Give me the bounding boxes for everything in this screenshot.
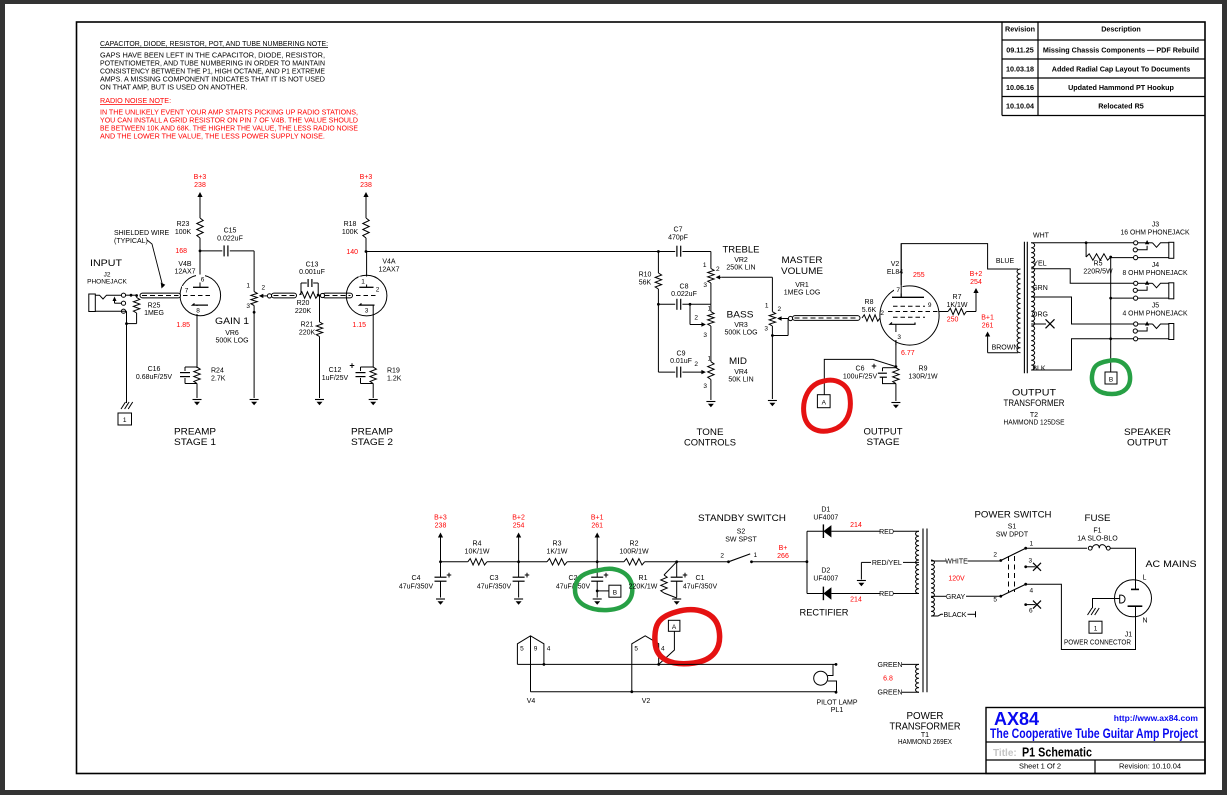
- resistor R24: [194, 367, 200, 383]
- svg-text:RECTIFIER: RECTIFIER: [800, 608, 849, 619]
- svg-text:V4B: V4B: [178, 261, 192, 268]
- svg-text:B+1: B+1: [591, 515, 604, 522]
- svg-text:1MEG LOG: 1MEG LOG: [784, 290, 821, 297]
- svg-text:140: 140: [346, 249, 358, 256]
- svg-text:2: 2: [993, 552, 997, 559]
- svg-text:A: A: [672, 624, 677, 631]
- svg-text:214: 214: [850, 597, 862, 604]
- wire V2 cathode: [895, 340, 897, 367]
- ground C3: [514, 598, 523, 600]
- svg-text:R24: R24: [211, 368, 224, 375]
- svg-text:1K/1W: 1K/1W: [546, 549, 567, 556]
- mid pot VR4: [694, 356, 714, 401]
- svg-text:238: 238: [360, 182, 372, 189]
- radio noise note text: [100, 96, 358, 141]
- svg-text:1: 1: [1030, 541, 1034, 548]
- wire plate V4B to node: [199, 251, 201, 276]
- resistor R20: [300, 292, 319, 298]
- svg-text:D2: D2: [821, 568, 830, 575]
- resistor R19: [370, 367, 376, 383]
- svg-text:The Cooperative Tube Guitar Am: The Cooperative Tube Guitar Amp Project: [990, 726, 1198, 741]
- svg-text:261: 261: [982, 323, 994, 330]
- svg-text:VR6: VR6: [225, 330, 239, 337]
- svg-text:120V: 120V: [948, 576, 965, 583]
- svg-text:3: 3: [703, 282, 707, 289]
- svg-text:250: 250: [947, 317, 959, 324]
- svg-text:B: B: [613, 590, 617, 597]
- heater V2: [630, 636, 665, 693]
- svg-text:PHONEJACK: PHONEJACK: [87, 279, 127, 286]
- wire stage2 plate to tone controls: [366, 251, 658, 253]
- capacitor C1: [676, 562, 678, 577]
- svg-text:R4: R4: [473, 541, 482, 548]
- box A output: [817, 395, 830, 408]
- shielded wire to V4A grid: [323, 293, 353, 298]
- title block: [986, 708, 1205, 774]
- svg-text:100K: 100K: [175, 229, 192, 236]
- input jack J2: [87, 258, 127, 313]
- svg-text:1: 1: [361, 279, 365, 286]
- svg-text:R5: R5: [1094, 261, 1103, 268]
- svg-text:A: A: [822, 400, 827, 407]
- ground center tap: [857, 580, 866, 582]
- svg-text:1: 1: [123, 417, 127, 424]
- svg-text:C16: C16: [148, 366, 161, 373]
- svg-text:8 OHM PHONEJACK: 8 OHM PHONEJACK: [1123, 270, 1188, 277]
- svg-text:R19: R19: [387, 368, 400, 375]
- wire jack sleeve to chassis: [124, 310, 127, 312]
- svg-text:1MEG: 1MEG: [144, 310, 164, 317]
- green annotation circle speaker: [1092, 360, 1130, 394]
- svg-text:7: 7: [185, 288, 189, 295]
- svg-text:238: 238: [194, 182, 206, 189]
- svg-text:10.06.16: 10.06.16: [1006, 83, 1034, 92]
- svg-text:3: 3: [764, 326, 768, 333]
- svg-text:SPEAKER: SPEAKER: [1124, 427, 1171, 438]
- svg-text:3: 3: [1029, 558, 1033, 565]
- wire fuse to plug: [1110, 548, 1135, 589]
- heater bus bottom: [531, 691, 837, 693]
- svg-text:L: L: [1143, 575, 1147, 582]
- svg-text:Sheet 1 Of 2: Sheet 1 Of 2: [1019, 762, 1061, 771]
- svg-text:2: 2: [880, 310, 884, 317]
- svg-text:+: +: [349, 361, 354, 371]
- svg-text:YEL: YEL: [1033, 261, 1046, 268]
- svg-text:BASS: BASS: [727, 310, 754, 321]
- ground stage2 cathode: [369, 399, 378, 401]
- svg-text:UF4007: UF4007: [813, 576, 838, 583]
- ground R21: [315, 399, 324, 401]
- resistor R4: [468, 559, 487, 565]
- speaker common line: [1110, 257, 1112, 372]
- svg-text:500K LOG: 500K LOG: [215, 338, 248, 345]
- shielded wire input: [140, 293, 181, 298]
- resistor R5: [1085, 243, 1087, 257]
- svg-text:10.03.18: 10.03.18: [1006, 65, 1034, 74]
- resistor R2: [624, 559, 645, 565]
- output transformer T2: [1017, 242, 1035, 374]
- svg-text:ORG: ORG: [1032, 312, 1048, 319]
- svg-text:100R/1W: 100R/1W: [619, 549, 649, 556]
- tube V4B: [180, 275, 221, 369]
- svg-text:3: 3: [246, 303, 250, 310]
- svg-text:214: 214: [850, 522, 862, 529]
- svg-text:D1: D1: [821, 507, 830, 514]
- svg-text:R8: R8: [865, 299, 874, 306]
- svg-text:3: 3: [897, 334, 901, 341]
- svg-text:4: 4: [661, 646, 665, 653]
- svg-text:2: 2: [694, 361, 698, 368]
- svg-text:C8: C8: [680, 284, 689, 291]
- ground C1: [672, 598, 681, 600]
- svg-text:B+3: B+3: [434, 515, 447, 522]
- svg-text:R18: R18: [344, 221, 357, 228]
- svg-text:WHITE: WHITE: [945, 559, 968, 566]
- revision table: [1002, 22, 1205, 116]
- svg-text:4: 4: [1030, 588, 1034, 595]
- svg-text:SHIELDED WIRE: SHIELDED WIRE: [114, 230, 170, 237]
- svg-text:GRN: GRN: [1032, 285, 1048, 292]
- svg-text:266: 266: [777, 553, 789, 560]
- pilot lamp PL1: [814, 671, 828, 685]
- svg-text:POWER: POWER: [907, 711, 944, 722]
- svg-text:R21: R21: [301, 322, 314, 329]
- resistor R23: [197, 218, 203, 238]
- wire box A to heater: [659, 631, 675, 664]
- svg-text:6: 6: [1029, 608, 1033, 615]
- svg-text:S1: S1: [1008, 524, 1017, 531]
- svg-text:R9: R9: [919, 366, 928, 373]
- svg-text:J1: J1: [1125, 632, 1133, 639]
- svg-text:POWER SWITCH: POWER SWITCH: [975, 510, 1052, 521]
- numbering note text: [100, 39, 328, 92]
- svg-text:J3: J3: [1152, 221, 1160, 228]
- svg-text:50K LIN: 50K LIN: [728, 377, 753, 384]
- svg-text:TREBLE: TREBLE: [723, 245, 760, 256]
- svg-text:BLUE: BLUE: [996, 258, 1015, 265]
- resistor R25: [125, 294, 136, 296]
- svg-text:RED: RED: [879, 529, 894, 536]
- svg-text:5: 5: [634, 646, 638, 653]
- svg-text:N: N: [1143, 618, 1148, 625]
- svg-text:HAMMOND 269EX: HAMMOND 269EX: [898, 739, 952, 746]
- svg-text:4: 4: [547, 646, 551, 653]
- svg-text:PREAMP: PREAMP: [174, 427, 216, 438]
- chassis ground hatch: [121, 402, 126, 409]
- svg-text:6: 6: [201, 277, 205, 284]
- svg-text:1.15: 1.15: [352, 322, 366, 329]
- svg-text:TRANSFORMER: TRANSFORMER: [890, 722, 961, 733]
- wire J3 sleeve: [1111, 257, 1134, 259]
- treble pot VR2: [703, 252, 721, 305]
- svg-text:10K/1W: 10K/1W: [465, 549, 490, 556]
- svg-text:1: 1: [246, 283, 250, 290]
- svg-text:250K LIN: 250K LIN: [726, 265, 755, 272]
- svg-text:V2: V2: [642, 698, 651, 705]
- svg-text:OUTPUT: OUTPUT: [1127, 438, 1168, 449]
- svg-text:168: 168: [175, 248, 187, 255]
- svg-text:AND THE LOWER THE VALUE, THE L: AND THE LOWER THE VALUE, THE LESS POWER …: [100, 132, 325, 141]
- svg-text:+: +: [446, 570, 451, 580]
- svg-text:OUTPUT: OUTPUT: [1012, 388, 1056, 399]
- svg-text:1: 1: [754, 552, 758, 559]
- svg-text:1: 1: [708, 306, 712, 313]
- svg-text:238: 238: [435, 523, 447, 530]
- wire S1 pin1 to fuse: [1026, 547, 1087, 549]
- ground output cathode: [891, 402, 900, 404]
- svg-text:+: +: [524, 570, 529, 580]
- svg-text:R7: R7: [953, 294, 962, 301]
- svg-text:STAGE: STAGE: [867, 437, 900, 448]
- svg-text:C13: C13: [306, 262, 319, 269]
- svg-text:(TYPICAL): (TYPICAL): [114, 238, 148, 245]
- svg-text:1: 1: [765, 303, 769, 310]
- capacitor C12: [361, 366, 374, 368]
- svg-text:0.022uF: 0.022uF: [217, 236, 243, 243]
- svg-text:4 OHM PHONEJACK: 4 OHM PHONEJACK: [1123, 311, 1188, 318]
- svg-text:C4: C4: [412, 575, 421, 582]
- wire MV to treble wiper: [721, 276, 772, 278]
- svg-text:1: 1: [1094, 626, 1098, 633]
- svg-text:C12: C12: [329, 367, 342, 374]
- svg-text:2: 2: [720, 553, 724, 560]
- svg-text:RADIO NOISE NOTE:: RADIO NOISE NOTE:: [100, 96, 171, 105]
- capacitor C3: [517, 560, 520, 563]
- resistor R21: [319, 295, 321, 322]
- svg-text:R3: R3: [553, 541, 562, 548]
- svg-text:V2: V2: [891, 261, 900, 268]
- svg-text:C15: C15: [224, 228, 237, 235]
- svg-text:B+1: B+1: [981, 315, 994, 322]
- wire plug N loop to switch pin4: [1026, 584, 1136, 649]
- svg-text:R1: R1: [639, 575, 648, 582]
- svg-text:2.7K: 2.7K: [211, 376, 226, 383]
- svg-text:PL1: PL1: [831, 707, 844, 714]
- svg-text:R10: R10: [639, 272, 652, 279]
- phonejack J5: [1133, 321, 1174, 341]
- power transformer T1: [916, 529, 935, 693]
- wire plug ground: [1093, 599, 1120, 609]
- svg-text:Title:: Title:: [993, 748, 1017, 759]
- svg-text:1: 1: [703, 262, 707, 269]
- screen grid wire + resistor R7: [939, 311, 948, 313]
- svg-text:BLK: BLK: [1032, 366, 1046, 373]
- svg-text:R25: R25: [148, 303, 161, 310]
- ground C2: [593, 598, 602, 600]
- svg-text:Updated Hammond PT Hookup: Updated Hammond PT Hookup: [1068, 83, 1174, 92]
- wire BLACK primary: [931, 614, 943, 616]
- svg-text:R2: R2: [630, 541, 639, 548]
- svg-text:09.11.25: 09.11.25: [1006, 46, 1034, 55]
- svg-text:2: 2: [376, 287, 380, 294]
- svg-text:BROWN: BROWN: [992, 345, 1019, 352]
- resistor R3: [547, 559, 567, 565]
- svg-text:0.022uF: 0.022uF: [671, 291, 697, 298]
- svg-text:WHT: WHT: [1033, 233, 1050, 240]
- svg-text:5: 5: [993, 597, 997, 604]
- tube V4A: [346, 252, 387, 368]
- svg-text:9: 9: [534, 646, 538, 653]
- svg-text:C3: C3: [490, 575, 499, 582]
- svg-text:Missing Chassis Components — P: Missing Chassis Components — PDF Rebuild: [1043, 46, 1199, 55]
- svg-text:HAMMOND 125DSE: HAMMOND 125DSE: [1004, 420, 1065, 427]
- gain pot VR6: [246, 283, 269, 399]
- svg-text:220K/1W: 220K/1W: [629, 584, 658, 591]
- svg-text:B+3: B+3: [360, 174, 373, 181]
- wire J5 sleeve: [1111, 338, 1134, 340]
- svg-text:VR3: VR3: [734, 322, 748, 329]
- svg-text:CAPACITOR, DIODE, RESISTOR, PO: CAPACITOR, DIODE, RESISTOR, POT, AND TUB…: [100, 39, 328, 48]
- svg-text:PILOT LAMP: PILOT LAMP: [816, 700, 857, 707]
- svg-text:0.01uF: 0.01uF: [670, 358, 692, 365]
- svg-text:INPUT: INPUT: [90, 258, 122, 269]
- svg-text:0.001uF: 0.001uF: [299, 269, 325, 276]
- heater V4: [517, 636, 550, 692]
- capacitor C4: [439, 560, 442, 563]
- svg-text:1: 1: [708, 356, 712, 363]
- svg-text:AC MAINS: AC MAINS: [1146, 559, 1197, 570]
- svg-text:130R/1W: 130R/1W: [908, 374, 938, 381]
- svg-text:B+3: B+3: [194, 174, 207, 181]
- svg-text:B+: B+: [779, 545, 788, 552]
- wire C15 to gain pot: [253, 251, 255, 283]
- wire GRAY primary: [931, 595, 946, 597]
- svg-text:SW SPST: SW SPST: [725, 537, 757, 544]
- node tone input: [657, 250, 660, 253]
- svg-text:C1: C1: [696, 575, 705, 582]
- red annotation circle output: [804, 380, 851, 431]
- heater bus top: [517, 663, 836, 665]
- svg-text:47uF/350V: 47uF/350V: [683, 584, 718, 591]
- svg-text:PREAMP: PREAMP: [351, 427, 393, 438]
- svg-text:STAGE 1: STAGE 1: [174, 437, 216, 448]
- resistor R10: [657, 252, 659, 274]
- svg-text:500K LOG: 500K LOG: [724, 330, 757, 337]
- box 1 input: [118, 413, 132, 425]
- svg-text:VR2: VR2: [734, 257, 748, 264]
- svg-text:Added Radial Cap Layout To Doc: Added Radial Cap Layout To Documents: [1052, 65, 1190, 74]
- svg-text:Relocated R5: Relocated R5: [1098, 102, 1144, 111]
- svg-text:47uF/350V: 47uF/350V: [477, 584, 512, 591]
- svg-text:10.10.04: 10.10.04: [1006, 102, 1034, 111]
- svg-text:BLACK: BLACK: [944, 612, 967, 619]
- svg-text:100K: 100K: [342, 229, 359, 236]
- capacitor C16: [185, 366, 197, 368]
- svg-text:S2: S2: [737, 529, 746, 536]
- bass pot VR3: [694, 304, 714, 361]
- ground gain pot: [250, 399, 259, 401]
- svg-text:100uF/25V: 100uF/25V: [843, 374, 878, 381]
- svg-text:255: 255: [913, 272, 925, 279]
- svg-text:2: 2: [694, 315, 698, 322]
- box B psu: [596, 590, 599, 593]
- svg-text:CONTROLS: CONTROLS: [684, 438, 736, 449]
- svg-text:3: 3: [703, 383, 707, 390]
- svg-text:R23: R23: [177, 221, 190, 228]
- svg-text:9: 9: [928, 302, 932, 309]
- capacitor C6 / resistor R9 network: [895, 365, 898, 368]
- svg-text:254: 254: [970, 279, 982, 286]
- svg-text:C9: C9: [677, 351, 686, 358]
- svg-text:8: 8: [196, 308, 200, 315]
- svg-text:V4: V4: [527, 698, 536, 705]
- svg-text:+: +: [603, 570, 608, 580]
- svg-text:2: 2: [716, 266, 720, 273]
- svg-text:220K: 220K: [295, 308, 312, 315]
- svg-text:T2: T2: [1030, 412, 1038, 419]
- svg-text:Revision: 10.10.04: Revision: 10.10.04: [1119, 762, 1181, 771]
- svg-text:5.6K: 5.6K: [862, 307, 877, 314]
- svg-text:OUTPUT: OUTPUT: [864, 427, 903, 438]
- resistor R8: [862, 315, 880, 321]
- svg-text:STANDBY SWITCH: STANDBY SWITCH: [698, 513, 786, 524]
- svg-text:MASTER: MASTER: [782, 255, 823, 266]
- phonejack J3: [1133, 240, 1174, 260]
- ground master volume: [768, 400, 777, 402]
- svg-text:56K: 56K: [639, 280, 652, 287]
- svg-text:470pF: 470pF: [668, 235, 688, 242]
- svg-text:TRANSFORMER: TRANSFORMER: [1004, 398, 1065, 409]
- power rail wire: [441, 561, 468, 563]
- svg-text:261: 261: [591, 523, 603, 530]
- ground C4: [436, 598, 445, 600]
- svg-text:2: 2: [778, 306, 782, 313]
- svg-text:47uF/350V: 47uF/350V: [399, 584, 434, 591]
- svg-text:RED: RED: [879, 591, 894, 598]
- svg-text:1.85: 1.85: [176, 322, 190, 329]
- svg-text:ON THAT AMP, BUT IS USED ON AN: ON THAT AMP, BUT IS USED ON ANOTHER.: [100, 83, 248, 92]
- wire V2 plate to OT: [901, 244, 1018, 298]
- svg-text:R20: R20: [297, 300, 310, 307]
- switch S1 contacts: [993, 541, 1041, 615]
- svg-text:6.77: 6.77: [901, 350, 915, 357]
- shielded wire MV to output: [788, 316, 792, 320]
- svg-text:B+2: B+2: [512, 515, 525, 522]
- svg-text:Description: Description: [1101, 25, 1141, 34]
- svg-text:Revision: Revision: [1005, 25, 1035, 34]
- svg-text:T1: T1: [921, 732, 929, 739]
- red annotation circle psu: [655, 610, 720, 664]
- svg-text:1.2K: 1.2K: [387, 376, 402, 383]
- svg-text:STAGE 2: STAGE 2: [351, 437, 393, 448]
- svg-text:GAIN 1: GAIN 1: [215, 316, 249, 327]
- resistor R18: [363, 218, 369, 238]
- svg-text:GREEN: GREEN: [878, 690, 903, 697]
- master volume pot VR1: [764, 303, 788, 400]
- svg-text:3: 3: [703, 332, 707, 339]
- shielded wire gain to stage2: [267, 294, 271, 298]
- svg-text:220R/5W: 220R/5W: [1083, 269, 1113, 276]
- resistor R9: [893, 368, 899, 384]
- svg-text:0.68uF/25V: 0.68uF/25V: [136, 374, 173, 381]
- svg-text:UF4007: UF4007: [813, 515, 838, 522]
- svg-text:254: 254: [513, 523, 525, 530]
- svg-text:+: +: [682, 570, 687, 580]
- svg-text:VOLUME: VOLUME: [781, 266, 823, 277]
- svg-text:C6: C6: [856, 366, 865, 373]
- svg-text:1uF/25V: 1uF/25V: [322, 375, 349, 382]
- svg-text:TONE: TONE: [697, 427, 724, 438]
- ground mid pot: [706, 401, 715, 403]
- node C8: [657, 303, 660, 306]
- svg-text:J4: J4: [1152, 262, 1160, 269]
- svg-text:VR4: VR4: [734, 369, 748, 376]
- svg-text:6.8: 6.8: [883, 676, 893, 683]
- svg-text:+: +: [871, 361, 876, 371]
- svg-text:12AX7: 12AX7: [378, 267, 399, 274]
- svg-text:7: 7: [896, 287, 900, 294]
- bass wiper branch: [689, 304, 691, 324]
